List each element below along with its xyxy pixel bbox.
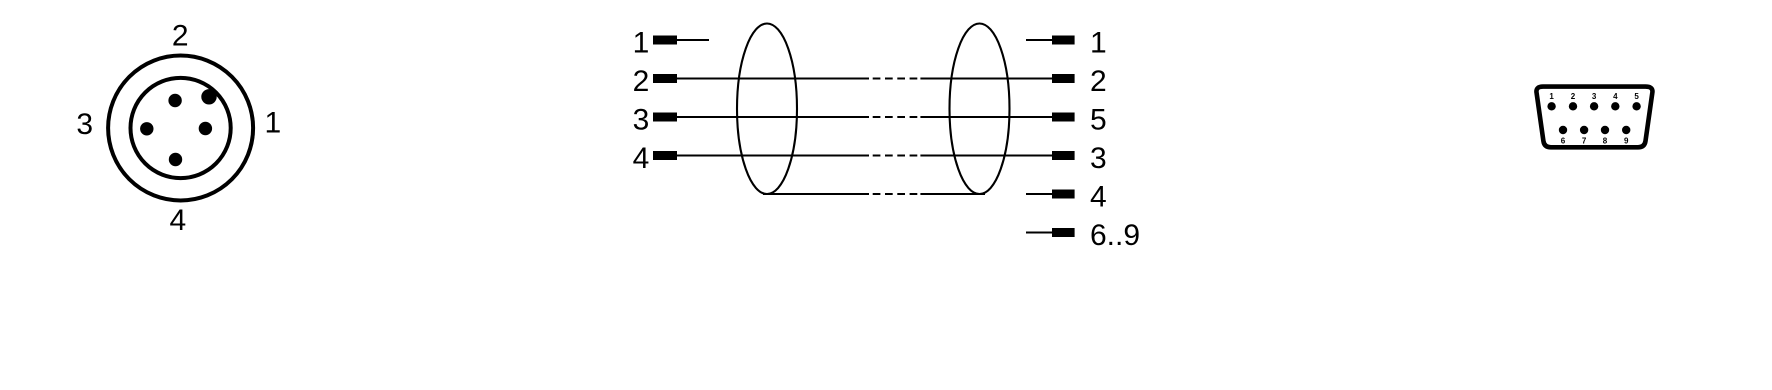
svg-text:3: 3	[633, 104, 650, 137]
svg-text:1: 1	[1549, 92, 1554, 101]
svg-text:2: 2	[1571, 92, 1576, 101]
svg-text:2: 2	[1090, 65, 1107, 98]
svg-text:1: 1	[264, 107, 281, 140]
svg-text:4: 4	[170, 204, 187, 237]
svg-text:3: 3	[1592, 92, 1597, 101]
svg-text:4: 4	[1090, 181, 1107, 214]
svg-text:3: 3	[1090, 142, 1107, 175]
svg-text:6..9: 6..9	[1090, 219, 1140, 252]
svg-text:2: 2	[633, 65, 650, 98]
svg-text:7: 7	[1582, 136, 1587, 145]
svg-text:2: 2	[172, 19, 189, 52]
svg-text:9: 9	[1624, 136, 1629, 145]
svg-text:8: 8	[1603, 136, 1608, 145]
svg-text:6: 6	[1561, 136, 1566, 145]
svg-text:3: 3	[76, 108, 93, 141]
svg-text:5: 5	[1634, 92, 1639, 101]
svg-text:1: 1	[633, 27, 650, 60]
svg-text:5: 5	[1090, 104, 1107, 137]
svg-text:1: 1	[1090, 27, 1107, 60]
svg-text:4: 4	[1613, 92, 1618, 101]
svg-text:4: 4	[633, 142, 650, 175]
